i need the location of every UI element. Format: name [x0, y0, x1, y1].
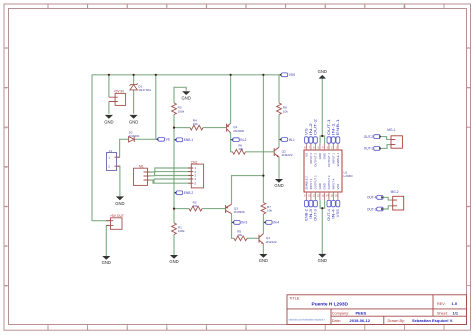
- svg-text:10k: 10k: [267, 209, 272, 213]
- wire: OUT-1 flag to MG-1 pin2: [381, 145, 391, 149]
- svg-text:GND: GND: [259, 258, 268, 263]
- net flag OUT-2 at MG-1: [364, 135, 382, 139]
- svg-text:GND: GND: [102, 260, 111, 265]
- svg-text:A: A: [5, 46, 7, 50]
- svg-text:IN-1: IN-1: [332, 123, 336, 135]
- net flag OUT-1 at MG-1: [364, 147, 382, 151]
- junction on bus at D1: [133, 74, 135, 76]
- connector CN1: [188, 164, 203, 188]
- svg-text:INPUT 3: INPUT 3: [309, 178, 313, 189]
- net flag VS: [156, 137, 170, 141]
- wire: D2 anode left and down to J1 pin1: [117, 139, 129, 157]
- svg-text:GND: GND: [129, 119, 138, 124]
- svg-text:VS: VS: [166, 138, 170, 142]
- junction on bus at Q1 emitter: [230, 74, 232, 76]
- svg-text:OUTPUT 3: OUTPUT 3: [313, 175, 317, 189]
- diode D2 1N4001: [129, 137, 135, 142]
- resistor R8 10k: [277, 103, 282, 115]
- svg-text:IN-1: IN-1: [289, 138, 295, 142]
- svg-text:IN-4: IN-4: [273, 221, 279, 225]
- wire: R7 bottom through IN-4 node to Q4 collector: [262, 214, 264, 234]
- svg-text:IN-3: IN-3: [309, 209, 313, 219]
- svg-text:GND: GND: [318, 258, 327, 263]
- ground under +5V IN pin2: [104, 115, 113, 124]
- junction rail at R4: [173, 127, 175, 129]
- wire: R2 junction to R2 left: [174, 208, 189, 210]
- ground under Q2 emitter: [274, 179, 283, 188]
- ground under +5V OUT pin2: [102, 256, 111, 265]
- svg-text:ENB-1: ENB-1: [336, 119, 340, 135]
- svg-text:VS: VS: [304, 153, 308, 157]
- svg-text:L293D: L293D: [344, 174, 354, 178]
- svg-text:B: B: [5, 86, 7, 90]
- IC pin stubs top: [306, 143, 338, 200]
- resistor R4 10k: [190, 125, 203, 130]
- wire: Q2 emitter down to ground: [278, 157, 280, 179]
- wire: OUT-2 flag to MG-1 pin1: [381, 137, 391, 140]
- svg-text:ENABLE 2: ENABLE 2: [304, 176, 308, 190]
- ground above R3: [182, 91, 191, 100]
- junction at IC bottom GND pins: [321, 207, 323, 209]
- net flag ENB-2: [174, 191, 193, 195]
- wire: R2 right to Q3 base: [202, 208, 226, 210]
- svg-text:INPUT 4: INPUT 4: [331, 178, 335, 189]
- net flag OUT-1 on IC pin 3: [327, 119, 331, 143]
- wire: R8 bottom through IN-1 node to Q2 collector: [278, 115, 280, 148]
- wire: rail down to R1: [173, 209, 175, 223]
- svg-text:Drawn By:: Drawn By:: [388, 319, 406, 323]
- svg-text:GND: GND: [169, 259, 178, 264]
- net flag OUT-3 at MG-2: [367, 207, 384, 211]
- wire: R5 right to Q4 base: [247, 237, 259, 239]
- net flag OUT-4 at MG-2: [367, 196, 384, 200]
- net flag IN-2 on IC pin 7: [309, 123, 313, 143]
- junction mid at Q3 emitter branch: [262, 175, 264, 177]
- svg-text:10k: 10k: [238, 147, 243, 151]
- svg-text:10k: 10k: [193, 204, 198, 208]
- svg-text:10: 10: [403, 4, 407, 8]
- svg-text:Sheet:: Sheet:: [437, 311, 448, 315]
- svg-text:OUT-2: OUT-2: [314, 119, 318, 135]
- svg-text:F: F: [5, 244, 7, 248]
- svg-text:ENABLE 1: ENABLE 1: [336, 153, 340, 167]
- svg-text:IN-2: IN-2: [240, 138, 246, 142]
- net flag IN-4 on IC pin 15: [332, 200, 336, 218]
- svg-text:Date:: Date:: [332, 319, 341, 323]
- svg-text:1N4732A: 1N4732A: [138, 88, 152, 92]
- svg-text:IN-4: IN-4: [332, 209, 336, 219]
- svg-text:PEES: PEES: [356, 310, 367, 315]
- junction on bus at +5V IN: [108, 74, 110, 76]
- svg-text:OUT-2: OUT-2: [364, 135, 374, 139]
- svg-text:Company:: Company:: [332, 311, 349, 315]
- wire: mid junction down to R7: [262, 176, 264, 203]
- svg-text:GND: GND: [322, 153, 326, 159]
- svg-text:MG-2: MG-2: [391, 190, 399, 194]
- svg-text:GND: GND: [322, 183, 326, 189]
- net flag IN-2: [231, 138, 247, 142]
- wire: left rail from bus down to +5V OUT pin 1: [92, 75, 111, 221]
- wire: rail junction to R4: [174, 127, 190, 129]
- wire: IC top GND pin link: [320, 136, 325, 143]
- svg-text:10k: 10k: [193, 122, 198, 126]
- svg-text:REV:: REV:: [437, 302, 446, 306]
- wire: J1 pin2 right and down to ground: [117, 166, 120, 196]
- wire: Q1 emitter up to bus: [230, 75, 232, 124]
- wire: R1 bottom to ground: [173, 235, 175, 255]
- net flag VSS on IC pin 16: [336, 200, 340, 217]
- wire: GND above IC down to IC top GND pins: [321, 79, 323, 137]
- net flag ENB-1: [174, 138, 193, 142]
- wire: join CN1 pin4 to M1 pin3 route: [153, 179, 155, 183]
- svg-text:100k: 100k: [178, 229, 185, 233]
- wire: D2 cathode to VS node: [134, 138, 155, 140]
- net flag OUT-2 on IC pin 6: [314, 119, 318, 143]
- ground under J1 pin2: [115, 196, 124, 206]
- svg-text:GND: GND: [318, 69, 327, 74]
- junction dots: [108, 74, 324, 210]
- svg-text:OUTPUT 2: OUTPUT 2: [313, 153, 317, 167]
- resistor R5 10k: [234, 236, 247, 241]
- svg-text:GND: GND: [318, 183, 322, 189]
- resistor R6 10k: [233, 149, 246, 154]
- svg-text:+5V OUT: +5V OUT: [110, 214, 124, 218]
- wire: +5V IN pin1 up to bus: [108, 75, 110, 97]
- net flag IN-3 on IC pin 10: [309, 200, 313, 218]
- ground under Q4 emitter: [259, 254, 268, 263]
- svg-text:1N4001: 1N4001: [129, 134, 140, 138]
- resistor R2 10k: [189, 206, 202, 211]
- svg-text:2019-06-12: 2019-06-12: [350, 318, 371, 323]
- svg-text:OUTPUT 4: OUTPUT 4: [327, 175, 331, 189]
- svg-text:100k: 100k: [178, 109, 185, 113]
- net flag IN-1: [279, 138, 295, 142]
- connector J1: [107, 153, 117, 171]
- net flag IN-3: [232, 221, 248, 225]
- net flag OUT-4 on IC pin 14: [327, 200, 331, 220]
- junction on bus at VS branch: [155, 74, 157, 76]
- wire: mid junction left and down to Q3 emitter: [232, 176, 264, 205]
- wire: IC bottom GND down to ground: [321, 208, 323, 254]
- svg-text:OUT-1: OUT-1: [327, 119, 331, 135]
- svg-text:VSS: VSS: [336, 209, 340, 217]
- wire: bus bend down into R8: [278, 75, 280, 103]
- svg-text:2N3906: 2N3906: [233, 129, 244, 133]
- wire: R6 right to Q2 base: [246, 151, 275, 153]
- svg-text:VS: VS: [305, 128, 309, 135]
- wire: OUT-4 flag to MG-2 pin1: [383, 197, 392, 200]
- svg-text:easyeda.com/sebastian.esquicel: easyeda.com/sebastian.esquicel.v: [289, 318, 326, 321]
- svg-text:+5V IN: +5V IN: [114, 90, 125, 94]
- svg-text:J1: J1: [109, 149, 113, 153]
- svg-text:1/1: 1/1: [453, 310, 459, 315]
- net flag ENB-2 on IC pin 9: [305, 200, 309, 220]
- wire: bus junction down long vertical to mid junction: [262, 75, 264, 176]
- wire: join CN1 pin2 to M1 pin2 route: [154, 172, 156, 176]
- svg-text:10k: 10k: [283, 109, 288, 113]
- ground under IC GND pins: [318, 254, 327, 263]
- wire: Q4 emitter down to ground: [262, 244, 264, 254]
- svg-text:B: B: [467, 86, 469, 90]
- resistor R7 10k: [261, 203, 266, 215]
- net flag VSS top right: [279, 73, 295, 77]
- svg-text:10k: 10k: [237, 233, 242, 237]
- IC inner pin names bottom: [304, 175, 340, 189]
- junction on bus at long vertical: [262, 74, 264, 76]
- svg-text:F: F: [468, 244, 470, 248]
- junction at IC top GND pins: [321, 135, 323, 137]
- wire: D1 bottom stub to ground: [133, 90, 135, 114]
- svg-text:IN-3: IN-3: [241, 221, 247, 225]
- transistor Q2 2N2222: [274, 147, 279, 157]
- svg-text:INPUT 2: INPUT 2: [309, 153, 313, 164]
- svg-text:OUT-4: OUT-4: [367, 196, 377, 200]
- net flag VS on IC pin 8: [305, 128, 309, 143]
- wire: M1 pin1 route to CN1 pin1: [150, 168, 192, 172]
- resistor R3 100k: [172, 103, 177, 115]
- net flag IN-4: [263, 221, 279, 225]
- wire: M1 pin2 route to CN1 pin3: [150, 175, 192, 177]
- header M1: [134, 168, 150, 185]
- svg-text:CN1: CN1: [191, 160, 198, 164]
- ground above IC (points up): [318, 69, 327, 78]
- svg-text:Puente H L293D: Puente H L293D: [312, 301, 349, 307]
- wire: bus down to VS node: [155, 75, 157, 140]
- net flag ENB-1 on IC pin 1: [336, 119, 340, 143]
- svg-text:E: E: [467, 205, 469, 209]
- resistor R1 100k: [172, 223, 177, 235]
- svg-text:2N2222: 2N2222: [282, 153, 293, 157]
- transistor Q4 2N2222: [259, 234, 263, 244]
- op-amp/driver U1 L293D body: [304, 150, 342, 192]
- ground under D1: [129, 115, 138, 124]
- wire: CN1 pin4 left stub: [154, 178, 191, 180]
- ground under R1: [169, 255, 178, 264]
- svg-text:OUT-3: OUT-3: [314, 209, 318, 221]
- svg-text:VSS: VSS: [289, 73, 295, 77]
- net flag IN-1 on IC pin 2: [332, 123, 336, 143]
- svg-text:IN-2: IN-2: [309, 123, 313, 135]
- wire: R3 bottom to rail junction: [173, 115, 175, 128]
- wire: M1 pin3 route to CN1 pin5: [150, 180, 192, 183]
- transistor Q1 2N3906: [227, 123, 231, 132]
- wire: top VSS bus: [92, 74, 279, 76]
- svg-text:ENB-1: ENB-1: [184, 138, 194, 142]
- svg-text:TITLE:: TITLE:: [289, 297, 300, 301]
- connector P1 +5V IN: [109, 93, 126, 105]
- wire: +5V IN pin2 down to ground: [108, 102, 110, 114]
- svg-text:2N3906: 2N3906: [234, 210, 245, 214]
- net flag OUT-3 on IC pin 11: [314, 200, 318, 220]
- wire: OUT-3 flag to MG-2 pin2: [383, 206, 392, 209]
- wire: rail ENB-1 down to ENB-2 and R2 junction: [173, 128, 175, 209]
- svg-text:GND: GND: [104, 119, 113, 124]
- wire: Q1 collector down to IN-2 node and R6: [231, 133, 233, 152]
- svg-text:GND: GND: [318, 153, 322, 159]
- connector P2 +5V OUT: [106, 218, 122, 230]
- IC pin numbers top row: [304, 148, 338, 150]
- wire: CN1 pin2 left stub: [155, 171, 192, 173]
- svg-text:GND: GND: [115, 201, 124, 206]
- svg-text:OUT-1: OUT-1: [364, 147, 374, 151]
- connector MG-1: [391, 136, 402, 148]
- svg-text:OUT-3: OUT-3: [367, 207, 377, 211]
- svg-text:VSS: VSS: [336, 184, 340, 190]
- wire: IC bottom GND pin link: [320, 200, 325, 208]
- zener diode D1 1N4732A: [130, 83, 138, 90]
- svg-text:OUT-4: OUT-4: [327, 209, 331, 221]
- svg-text:ENB-2: ENB-2: [305, 209, 309, 221]
- svg-text:E: E: [5, 205, 7, 209]
- svg-text:INPUT 1: INPUT 1: [331, 153, 335, 164]
- svg-text:MG-1: MG-1: [387, 128, 395, 132]
- wire: D1 top stub from bus: [133, 75, 135, 84]
- wire: GND stub bend above R3: [174, 87, 186, 103]
- svg-text:M1: M1: [139, 164, 144, 168]
- svg-text:GND: GND: [274, 183, 283, 188]
- svg-text:GND: GND: [182, 95, 191, 100]
- transistor Q3 2N3906: [226, 204, 232, 213]
- wire: Q3 collector down through IN-3 node to R5: [232, 214, 235, 239]
- IC pin numbers bottom row: [304, 195, 338, 197]
- svg-text:1.0: 1.0: [452, 301, 458, 306]
- svg-text:Sebastian Esquicel V.: Sebastian Esquicel V.: [412, 318, 453, 323]
- wire: +5V OUT pin2 left and down to ground: [106, 225, 110, 256]
- connector MG-2: [393, 196, 404, 210]
- svg-text:A: A: [467, 46, 469, 50]
- svg-text:ENB-2: ENB-2: [184, 191, 194, 195]
- IC inner pin names top: [304, 153, 340, 167]
- svg-text:OUTPUT 1: OUTPUT 1: [327, 153, 331, 167]
- wire: R4 to Q1 base: [203, 127, 227, 129]
- svg-text:2N2222: 2N2222: [266, 240, 277, 244]
- junction rail at R2: [173, 208, 175, 210]
